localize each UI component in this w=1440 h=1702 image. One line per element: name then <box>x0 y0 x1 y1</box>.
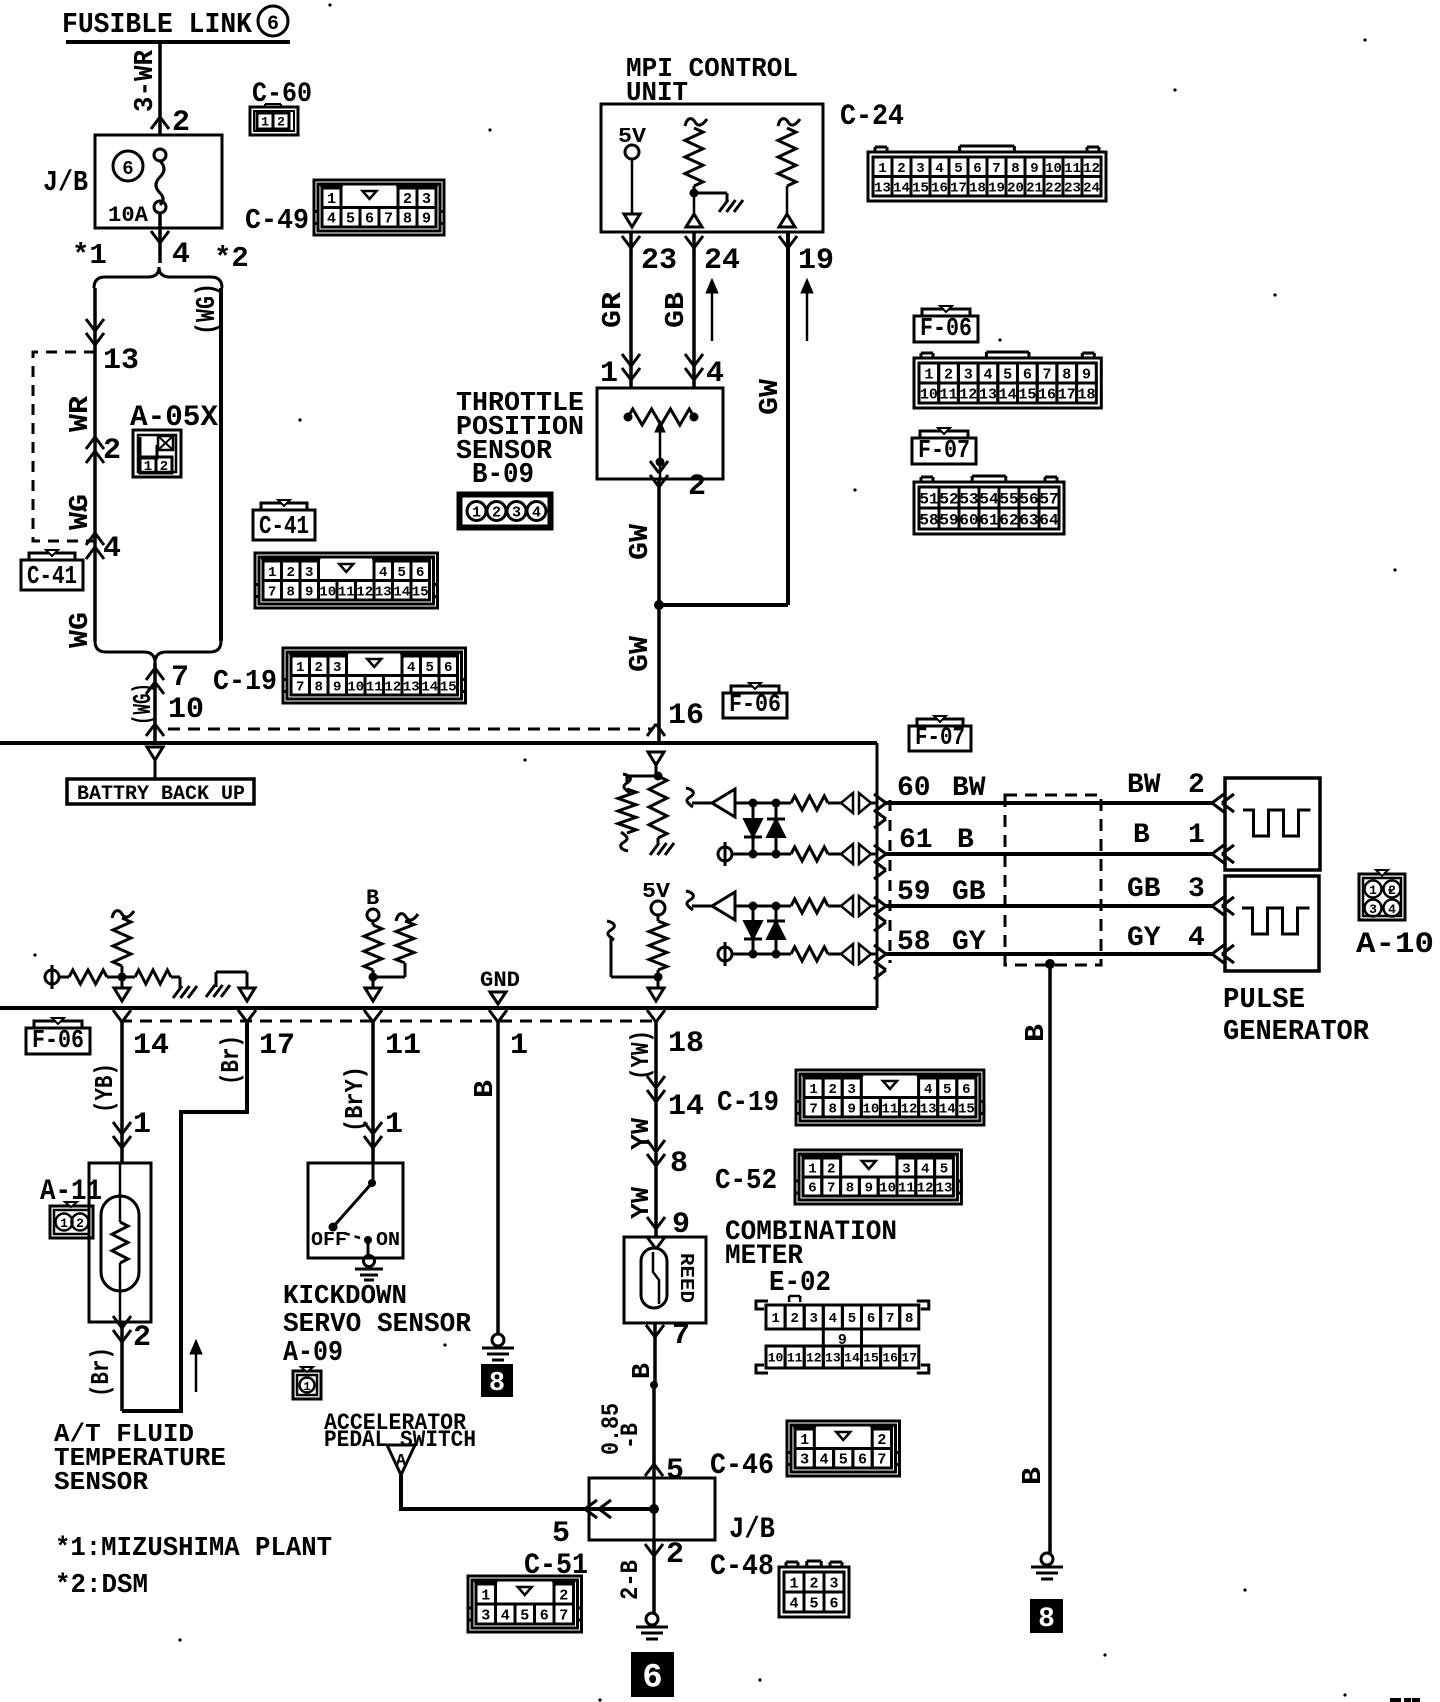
svg-text:8: 8 <box>489 1369 505 1399</box>
svg-text:54: 54 <box>979 490 999 508</box>
svg-text:1: 1 <box>924 366 933 383</box>
svg-text:8: 8 <box>1062 366 1071 383</box>
svg-text:3: 3 <box>305 565 313 581</box>
svg-text:20: 20 <box>1007 180 1024 196</box>
svg-text:PULSE: PULSE <box>1223 983 1305 1016</box>
svg-text:51: 51 <box>919 490 938 508</box>
svg-text:5: 5 <box>940 1162 948 1178</box>
svg-text:C-19: C-19 <box>213 665 277 698</box>
svg-text:*2: *2 <box>214 242 249 275</box>
svg-text:7: 7 <box>384 211 393 228</box>
svg-text:F-06: F-06 <box>729 690 781 719</box>
svg-text:1: 1 <box>385 1108 403 1142</box>
svg-text:10: 10 <box>168 693 204 727</box>
svg-text:*2:DSM: *2:DSM <box>55 1571 148 1601</box>
svg-text:1: 1 <box>771 1311 779 1327</box>
svg-text:8: 8 <box>315 679 323 695</box>
svg-text:C-46: C-46 <box>710 1449 774 1483</box>
svg-text:1: 1 <box>809 1082 817 1098</box>
svg-text:6: 6 <box>267 13 279 36</box>
svg-text:B: B <box>1022 1024 1052 1042</box>
svg-text:B: B <box>1133 820 1150 851</box>
svg-text:C-52: C-52 <box>715 1164 777 1197</box>
svg-text:FUSIBLE LINK: FUSIBLE LINK <box>62 8 253 41</box>
svg-text:C-48: C-48 <box>710 1550 774 1584</box>
svg-text:*1:MIZUSHIMA PLANT: *1:MIZUSHIMA PLANT <box>55 1534 332 1564</box>
svg-text:6: 6 <box>867 1311 875 1327</box>
svg-text:2: 2 <box>160 459 168 475</box>
svg-text:GR: GR <box>599 291 629 328</box>
svg-text:1: 1 <box>133 1108 151 1142</box>
svg-text:C-41: C-41 <box>259 511 309 541</box>
svg-text:63: 63 <box>1019 511 1038 529</box>
svg-text:B: B <box>1019 1467 1049 1485</box>
svg-text:12: 12 <box>901 1101 918 1117</box>
svg-text:2: 2 <box>287 565 295 581</box>
svg-text:4: 4 <box>983 366 992 383</box>
svg-text:F-07: F-07 <box>918 435 970 465</box>
svg-text:7: 7 <box>268 584 276 600</box>
svg-text:2: 2 <box>277 115 285 130</box>
svg-text:1: 1 <box>800 1432 809 1449</box>
svg-text:C-41: C-41 <box>27 561 77 591</box>
svg-text:(WG): (WG) <box>128 683 158 725</box>
svg-text:5: 5 <box>1003 366 1012 383</box>
svg-text:F-06: F-06 <box>920 313 972 343</box>
svg-text:56: 56 <box>1019 490 1038 508</box>
svg-text:3: 3 <box>829 1575 838 1592</box>
svg-text:2: 2 <box>403 191 412 208</box>
svg-text:1: 1 <box>1188 820 1205 851</box>
svg-text:4: 4 <box>789 1595 798 1612</box>
svg-text:11: 11 <box>787 1351 803 1366</box>
svg-text:61: 61 <box>899 825 933 856</box>
svg-text:7: 7 <box>877 1452 886 1469</box>
svg-text:4: 4 <box>924 1082 932 1098</box>
svg-text:8: 8 <box>403 211 412 228</box>
svg-text:6: 6 <box>444 660 452 676</box>
svg-text:B: B <box>957 825 974 856</box>
svg-text:15: 15 <box>912 180 929 196</box>
svg-text:2: 2 <box>688 470 706 504</box>
svg-text:10: 10 <box>879 1181 896 1197</box>
svg-text:9: 9 <box>1082 366 1091 383</box>
svg-text:B: B <box>627 1363 657 1379</box>
svg-text:3: 3 <box>902 1162 910 1178</box>
svg-text:GND: GND <box>480 968 520 993</box>
svg-text:BW: BW <box>952 773 986 804</box>
svg-text:10A: 10A <box>108 203 149 228</box>
svg-text:14: 14 <box>421 679 438 695</box>
svg-text:3: 3 <box>1369 902 1377 917</box>
svg-text:3: 3 <box>512 504 521 521</box>
svg-text:10: 10 <box>862 1101 879 1117</box>
svg-text:5: 5 <box>520 1607 529 1624</box>
svg-text:5: 5 <box>954 161 962 177</box>
svg-text:14: 14 <box>668 1090 704 1124</box>
svg-text:5: 5 <box>839 1452 848 1469</box>
svg-text:11: 11 <box>882 1101 899 1117</box>
svg-text:GY: GY <box>952 927 986 958</box>
svg-text:1: 1 <box>268 565 276 581</box>
svg-text:15: 15 <box>1018 386 1036 403</box>
svg-text:9: 9 <box>865 1181 873 1197</box>
svg-text:B: B <box>471 1080 501 1098</box>
svg-text:3: 3 <box>800 1452 809 1469</box>
svg-text:-B: -B <box>616 1423 645 1449</box>
svg-text:2: 2 <box>1188 770 1205 801</box>
svg-text:4: 4 <box>172 238 190 272</box>
svg-text:17: 17 <box>1058 386 1076 403</box>
svg-text:7: 7 <box>809 1101 817 1117</box>
svg-text:60: 60 <box>897 773 931 804</box>
svg-text:GW: GW <box>626 523 656 560</box>
svg-text:5: 5 <box>552 1517 570 1551</box>
svg-text:1: 1 <box>261 115 269 130</box>
svg-text:14: 14 <box>393 584 410 600</box>
svg-text:16: 16 <box>931 180 948 196</box>
svg-text:2: 2 <box>828 1082 836 1098</box>
svg-text:59: 59 <box>939 511 958 529</box>
svg-text:1: 1 <box>60 1216 68 1231</box>
svg-text:3: 3 <box>422 191 431 208</box>
svg-text:19: 19 <box>798 244 834 278</box>
svg-text:(YW): (YW) <box>626 1030 656 1080</box>
svg-text:19: 19 <box>988 180 1005 196</box>
svg-text:1: 1 <box>600 357 618 391</box>
svg-text:2: 2 <box>133 1321 151 1355</box>
svg-text:5: 5 <box>943 1082 951 1098</box>
svg-text:B-09: B-09 <box>472 458 534 491</box>
svg-text:2: 2 <box>492 504 501 521</box>
svg-text:A-10: A-10 <box>1356 928 1434 962</box>
svg-text:4: 4 <box>935 161 943 177</box>
svg-text:8: 8 <box>287 584 295 600</box>
svg-text:14: 14 <box>133 1029 169 1063</box>
svg-text:59: 59 <box>897 877 931 908</box>
svg-text:1: 1 <box>1369 883 1377 898</box>
svg-text:12: 12 <box>1083 161 1100 177</box>
svg-text:16: 16 <box>882 1351 898 1366</box>
svg-text:14: 14 <box>893 180 910 196</box>
svg-text:10: 10 <box>768 1351 784 1366</box>
svg-text:4: 4 <box>706 357 724 391</box>
svg-text:61: 61 <box>979 511 998 529</box>
svg-text:(YB): (YB) <box>90 1063 120 1113</box>
svg-text:9: 9 <box>1030 161 1038 177</box>
svg-text:24: 24 <box>704 244 740 278</box>
svg-text:8: 8 <box>670 1147 688 1181</box>
svg-text:7: 7 <box>296 679 304 695</box>
svg-text:12: 12 <box>917 1181 934 1197</box>
svg-text:7: 7 <box>886 1311 894 1327</box>
svg-text:6: 6 <box>1023 366 1032 383</box>
svg-text:KICKDOWN: KICKDOWN <box>283 1282 407 1312</box>
svg-text:15: 15 <box>863 1351 879 1366</box>
svg-text:4: 4 <box>829 1311 837 1327</box>
svg-text:15: 15 <box>958 1101 975 1117</box>
svg-text:11: 11 <box>940 386 958 403</box>
svg-text:3: 3 <box>964 366 973 383</box>
svg-text:17: 17 <box>950 180 967 196</box>
svg-text:2: 2 <box>897 161 905 177</box>
svg-text:WR: WR <box>66 395 96 432</box>
svg-text:OFF: OFF <box>311 1229 347 1251</box>
svg-text:A-09: A-09 <box>283 1336 343 1369</box>
svg-text:14: 14 <box>844 1351 860 1366</box>
svg-text:4: 4 <box>819 1452 828 1469</box>
svg-text:7: 7 <box>1043 366 1052 383</box>
svg-text:58: 58 <box>919 511 938 529</box>
svg-text:5: 5 <box>848 1311 856 1327</box>
svg-text:6: 6 <box>122 158 133 180</box>
svg-text:C-51: C-51 <box>524 1549 588 1583</box>
svg-text:(Br): (Br) <box>86 1347 116 1397</box>
svg-text:18: 18 <box>969 180 986 196</box>
svg-text:12: 12 <box>806 1351 822 1366</box>
svg-text:15: 15 <box>440 679 457 695</box>
svg-text:3: 3 <box>848 1082 856 1098</box>
svg-text:5: 5 <box>346 211 355 228</box>
svg-text:5: 5 <box>426 660 434 676</box>
svg-text:2-B: 2-B <box>616 1560 645 1600</box>
svg-text:23: 23 <box>641 244 677 278</box>
svg-text:3: 3 <box>916 161 924 177</box>
svg-text:GB: GB <box>1127 874 1161 905</box>
svg-text:F-07: F-07 <box>915 723 965 752</box>
svg-text:GW: GW <box>626 635 656 672</box>
svg-text:2: 2 <box>809 1575 818 1592</box>
svg-text:GENERATOR: GENERATOR <box>1223 1015 1370 1048</box>
svg-text:2: 2 <box>827 1162 835 1178</box>
svg-text:11: 11 <box>385 1029 421 1063</box>
svg-text:8: 8 <box>846 1181 854 1197</box>
svg-text:24: 24 <box>1083 180 1100 196</box>
svg-text:1: 1 <box>808 1162 816 1178</box>
svg-text:6: 6 <box>858 1452 867 1469</box>
svg-text:GB: GB <box>952 877 986 908</box>
svg-text:J/B: J/B <box>43 166 88 199</box>
svg-text:6: 6 <box>962 1082 970 1098</box>
svg-text:10: 10 <box>347 679 364 695</box>
svg-text:PEDAL SWITCH: PEDAL SWITCH <box>324 1427 476 1453</box>
svg-text:8: 8 <box>1011 161 1019 177</box>
svg-text:GB: GB <box>662 292 692 328</box>
svg-text:F-06: F-06 <box>32 1025 84 1055</box>
svg-text:4: 4 <box>921 1162 929 1178</box>
svg-text:E-02: E-02 <box>769 1266 831 1299</box>
svg-text:1: 1 <box>472 504 481 521</box>
svg-text:11: 11 <box>338 584 355 600</box>
svg-text:B: B <box>366 886 379 911</box>
svg-text:1: 1 <box>327 191 336 208</box>
svg-text:3-WR: 3-WR <box>131 49 161 112</box>
svg-text:18: 18 <box>1077 386 1095 403</box>
svg-text:4: 4 <box>407 660 415 676</box>
svg-text:BW: BW <box>1127 770 1161 801</box>
svg-text:21: 21 <box>1026 180 1043 196</box>
svg-text:8: 8 <box>1038 1604 1055 1635</box>
svg-text:SENSOR: SENSOR <box>54 1467 148 1497</box>
svg-text:2: 2 <box>666 1538 684 1572</box>
svg-text:6: 6 <box>365 211 374 228</box>
svg-text:1: 1 <box>789 1575 798 1592</box>
svg-text:9: 9 <box>305 584 313 600</box>
svg-text:11: 11 <box>1064 161 1081 177</box>
svg-text:52: 52 <box>939 490 958 508</box>
svg-text:2: 2 <box>103 434 121 468</box>
svg-text:3: 3 <box>481 1607 490 1624</box>
svg-text:13: 13 <box>403 679 420 695</box>
svg-text:18: 18 <box>668 1027 704 1061</box>
svg-text:15: 15 <box>412 584 429 600</box>
svg-text:13: 13 <box>825 1351 841 1366</box>
svg-text:4: 4 <box>327 211 336 228</box>
svg-text:5: 5 <box>809 1595 818 1612</box>
svg-text:WG: WG <box>66 494 96 530</box>
svg-text:10: 10 <box>1045 161 1062 177</box>
svg-text:9: 9 <box>848 1101 856 1117</box>
svg-text:BATTRY BACK UP: BATTRY BACK UP <box>77 783 245 806</box>
svg-text:REED: REED <box>675 1253 697 1303</box>
svg-text:62: 62 <box>999 511 1018 529</box>
svg-text:13: 13 <box>920 1101 937 1117</box>
svg-text:6: 6 <box>973 161 981 177</box>
svg-text:J/B: J/B <box>729 1513 775 1547</box>
svg-text:6: 6 <box>808 1181 816 1197</box>
svg-text:17: 17 <box>901 1351 917 1366</box>
svg-text:10: 10 <box>920 386 938 403</box>
svg-text:22: 22 <box>1045 180 1062 196</box>
svg-text:9: 9 <box>333 679 341 695</box>
svg-text:7: 7 <box>992 161 1000 177</box>
svg-text:1: 1 <box>303 1380 310 1394</box>
svg-text:7: 7 <box>171 661 189 695</box>
svg-text:2: 2 <box>315 660 323 676</box>
svg-text:7: 7 <box>559 1607 568 1624</box>
svg-text:55: 55 <box>999 490 1018 508</box>
svg-text:4: 4 <box>103 532 121 566</box>
svg-text:53: 53 <box>959 490 978 508</box>
svg-text:13: 13 <box>103 344 139 378</box>
svg-text:2: 2 <box>877 1432 886 1449</box>
svg-text:4: 4 <box>1188 923 1205 954</box>
svg-text:4: 4 <box>379 565 387 581</box>
svg-text:14: 14 <box>939 1101 956 1117</box>
svg-text:2: 2 <box>76 1216 84 1231</box>
svg-text:6: 6 <box>416 565 424 581</box>
svg-text:GW: GW <box>756 378 786 415</box>
svg-text:(Br): (Br) <box>216 1035 246 1085</box>
svg-text:4: 4 <box>501 1607 510 1624</box>
svg-text:13: 13 <box>936 1181 953 1197</box>
svg-text:12: 12 <box>384 679 401 695</box>
svg-text:16: 16 <box>668 699 704 733</box>
svg-text:13: 13 <box>979 386 997 403</box>
svg-text:6: 6 <box>540 1607 549 1624</box>
svg-text:YW: YW <box>626 1187 656 1219</box>
svg-text:2: 2 <box>944 366 953 383</box>
svg-text:12: 12 <box>356 584 373 600</box>
svg-text:ON: ON <box>376 1229 400 1251</box>
svg-text:7: 7 <box>672 1319 690 1353</box>
svg-text:1: 1 <box>144 459 152 475</box>
svg-text:6: 6 <box>829 1595 838 1612</box>
svg-text:8: 8 <box>905 1311 913 1327</box>
svg-text:GY: GY <box>1127 923 1161 954</box>
svg-text:17: 17 <box>259 1029 295 1063</box>
svg-text:57: 57 <box>1039 490 1058 508</box>
svg-text:60: 60 <box>959 511 978 529</box>
svg-text:11: 11 <box>366 679 383 695</box>
svg-text:13: 13 <box>375 584 392 600</box>
svg-text:1: 1 <box>296 660 304 676</box>
svg-text:2: 2 <box>790 1311 798 1327</box>
svg-text:14: 14 <box>999 386 1017 403</box>
svg-text:58: 58 <box>897 927 931 958</box>
svg-text:13: 13 <box>874 180 891 196</box>
svg-text:12: 12 <box>959 386 977 403</box>
svg-text:64: 64 <box>1039 511 1059 529</box>
svg-text:1: 1 <box>878 161 886 177</box>
svg-text:1: 1 <box>510 1029 528 1063</box>
svg-text:(WG): (WG) <box>193 283 223 335</box>
svg-text:WG: WG <box>66 612 96 648</box>
svg-text:8: 8 <box>828 1101 836 1117</box>
svg-text:*1: *1 <box>72 239 107 272</box>
svg-text:23: 23 <box>1064 180 1081 196</box>
svg-text:4: 4 <box>1388 902 1396 917</box>
svg-text:7: 7 <box>827 1181 835 1197</box>
svg-text:3: 3 <box>810 1311 818 1327</box>
svg-text:2: 2 <box>559 1587 568 1604</box>
svg-text:10: 10 <box>319 584 336 600</box>
svg-text:16: 16 <box>1038 386 1056 403</box>
svg-text:9: 9 <box>422 211 431 228</box>
svg-text:4: 4 <box>532 504 541 521</box>
svg-text:C-24: C-24 <box>840 100 904 134</box>
svg-text:3: 3 <box>333 660 341 676</box>
svg-text:3: 3 <box>1188 874 1205 905</box>
svg-text:C-49: C-49 <box>245 204 309 237</box>
svg-text:5: 5 <box>666 1454 684 1488</box>
svg-text:5: 5 <box>398 565 406 581</box>
svg-text:6: 6 <box>642 1660 662 1698</box>
svg-text:C-19: C-19 <box>717 1086 779 1119</box>
svg-text:1: 1 <box>481 1587 490 1604</box>
svg-text:A: A <box>396 1452 407 1471</box>
svg-text:11: 11 <box>898 1181 915 1197</box>
